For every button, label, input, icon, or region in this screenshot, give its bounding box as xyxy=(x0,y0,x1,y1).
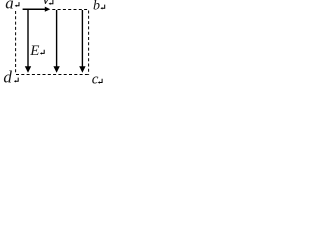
paragraph mark after b xyxy=(100,5,104,10)
paragraph mark after d xyxy=(14,78,18,83)
right edge dashed xyxy=(88,11,90,76)
field arrow 1 xyxy=(25,10,31,73)
paragraph mark after E xyxy=(40,50,44,55)
svg-text:d: d xyxy=(3,68,12,87)
top edge dashed xyxy=(52,9,89,11)
left edge dashed xyxy=(15,11,17,74)
paragraph mark after c xyxy=(98,79,102,84)
field arrow 3 xyxy=(79,10,85,73)
paragraph mark after v xyxy=(49,0,53,5)
paragraph mark after a xyxy=(15,2,19,7)
field arrow 2 xyxy=(53,10,59,73)
svg-text:E: E xyxy=(29,43,39,59)
velocity arrow v xyxy=(23,7,51,12)
svg-text:v: v xyxy=(42,0,50,8)
svg-text:a: a xyxy=(5,0,14,13)
svg-text:c: c xyxy=(92,72,99,88)
bottom edge dashed xyxy=(16,74,90,76)
svg-text:b: b xyxy=(93,0,100,13)
